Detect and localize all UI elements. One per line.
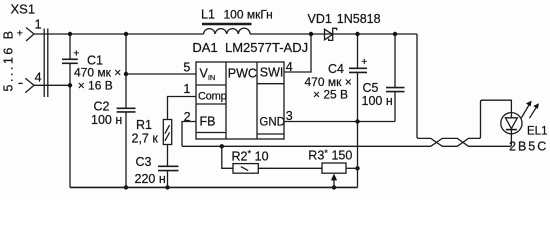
node: VIN tap on C2 branch bbox=[124, 72, 128, 76]
wire: R2 branch bbox=[222, 146, 233, 168]
R3 wiper arrow to ground bus bbox=[331, 174, 337, 188]
wire: C3 to ground bus bbox=[167, 171, 169, 188]
svg-text:470 мк ×: 470 мк × bbox=[74, 66, 121, 80]
wire: R2 to R3 bbox=[258, 167, 322, 169]
svg-text:GND: GND bbox=[259, 117, 285, 129]
resistor R1 2.7k bbox=[132, 118, 172, 146]
svg-text:Comp: Comp bbox=[198, 90, 227, 102]
wire: SW pin 4 up to rail bbox=[284, 34, 311, 72]
svg-text:LM2577T-ADJ: LM2577T-ADJ bbox=[225, 40, 308, 55]
svg-text:5...16 В: 5...16 В bbox=[2, 28, 16, 91]
wire: R3 right lead bbox=[346, 167, 358, 169]
svg-text:PWC: PWC bbox=[228, 67, 257, 81]
connector XS1 bbox=[11, 2, 48, 97]
svg-text:SWI: SWI bbox=[260, 66, 284, 80]
svg-text:R1: R1 bbox=[136, 118, 152, 132]
svg-text:5: 5 bbox=[183, 60, 190, 74]
svg-text:XS1: XS1 bbox=[11, 2, 36, 17]
svg-text:FB: FB bbox=[200, 115, 216, 129]
svg-text:2,7 к: 2,7 к bbox=[132, 131, 159, 145]
diode VD1 1N5818 bbox=[308, 12, 381, 41]
svg-text:× 25 В: × 25 В bbox=[313, 87, 348, 101]
node: C2 / ground bus bbox=[124, 185, 128, 189]
svg-text:VD1: VD1 bbox=[308, 12, 332, 26]
wire: C2 to ground bus bbox=[125, 112, 127, 187]
wire: Comp pin 1 to R1 top bbox=[168, 97, 197, 120]
node: wiper / ground bus bbox=[332, 185, 336, 189]
wire: ground vertical (C4/C5/GND to bus) bbox=[357, 122, 359, 188]
svg-text:L1: L1 bbox=[201, 7, 215, 21]
node: R2 tap bbox=[220, 144, 224, 148]
wire: top rail from XS1 pin 1 to L1 bbox=[34, 33, 204, 35]
capacitor C2 100n bbox=[91, 99, 136, 127]
wire: FB pin 2 down to feedback line bbox=[182, 122, 196, 147]
capacitor C1 470uF 16V bbox=[62, 48, 121, 93]
svg-text:2B5C: 2B5C bbox=[509, 139, 548, 153]
node: rail / C1 branch bbox=[68, 32, 72, 36]
node: rail / C5 branch bbox=[393, 32, 397, 36]
wire: R1 to C3 bbox=[167, 145, 169, 167]
svg-text:VIN: VIN bbox=[200, 67, 216, 83]
svg-text:+: + bbox=[73, 48, 79, 60]
node: SW / rail bbox=[309, 32, 313, 36]
capacitor C5 100n bbox=[362, 34, 405, 122]
svg-text:100 мкГн: 100 мкГн bbox=[224, 7, 273, 21]
svg-text:220 н: 220 н bbox=[135, 172, 166, 186]
svg-text:100 н: 100 н bbox=[91, 113, 122, 127]
resistor R3* 150 (preset) bbox=[308, 148, 352, 173]
svg-text:+: + bbox=[17, 28, 23, 40]
node: C3 / ground bus bbox=[165, 185, 169, 189]
node: C1 / pin4 junction bbox=[68, 83, 72, 87]
svg-text:1: 1 bbox=[183, 82, 190, 96]
svg-text:R2* 10: R2* 10 bbox=[232, 149, 269, 164]
svg-text:R3* 150: R3* 150 bbox=[308, 148, 352, 163]
wire: feedback / LED return line bbox=[182, 134, 511, 146]
svg-text:100 н: 100 н bbox=[362, 94, 393, 108]
svg-text:+: + bbox=[361, 56, 367, 68]
svg-text:C3: C3 bbox=[136, 155, 152, 169]
wire: C1 to ground bus, joins pin4 wire bbox=[69, 63, 71, 187]
svg-text:DA1: DA1 bbox=[192, 40, 217, 55]
svg-text:1: 1 bbox=[35, 17, 42, 31]
capacitor C3 220n bbox=[135, 155, 179, 186]
XS1 pin 1 contact bbox=[17, 17, 42, 41]
svg-text:× 16 В: × 16 В bbox=[78, 79, 113, 93]
resistor R2* 10 bbox=[232, 149, 269, 174]
wire: L1 to VD1 anode bbox=[250, 33, 417, 35]
svg-text:C2: C2 bbox=[94, 99, 110, 113]
wire: C2 branch vertical bbox=[125, 34, 127, 108]
wire: GND pin 3 to C5 bottom bbox=[284, 121, 395, 123]
wire: output rail down to twisted pair (upper wire) bbox=[417, 34, 511, 146]
wire: C1 branch vertical upper bbox=[69, 34, 71, 59]
node: rail / C2 branch bbox=[124, 32, 128, 36]
svg-text:EL1: EL1 bbox=[527, 125, 547, 137]
svg-text:4: 4 bbox=[35, 71, 42, 85]
node: R3 / ground vertical bbox=[355, 166, 359, 170]
node: GND net junction bbox=[355, 119, 359, 123]
LED EL1 bbox=[501, 101, 548, 154]
svg-text:1N5818: 1N5818 bbox=[337, 12, 381, 26]
capacitor C4 470uF 25V bbox=[305, 34, 368, 122]
wire: ground bus bbox=[70, 186, 358, 188]
wire: VIN pin 5 to C2 branch bbox=[126, 73, 196, 75]
wire: XS1 pin 4 to C1 vertical bbox=[34, 84, 70, 86]
IC DA1 LM2577T-ADJ bbox=[192, 40, 308, 139]
inductor L1 100uH bbox=[201, 7, 273, 34]
XS1 pin 4 contact bbox=[18, 71, 41, 93]
node: rail / C4 branch bbox=[355, 32, 359, 36]
